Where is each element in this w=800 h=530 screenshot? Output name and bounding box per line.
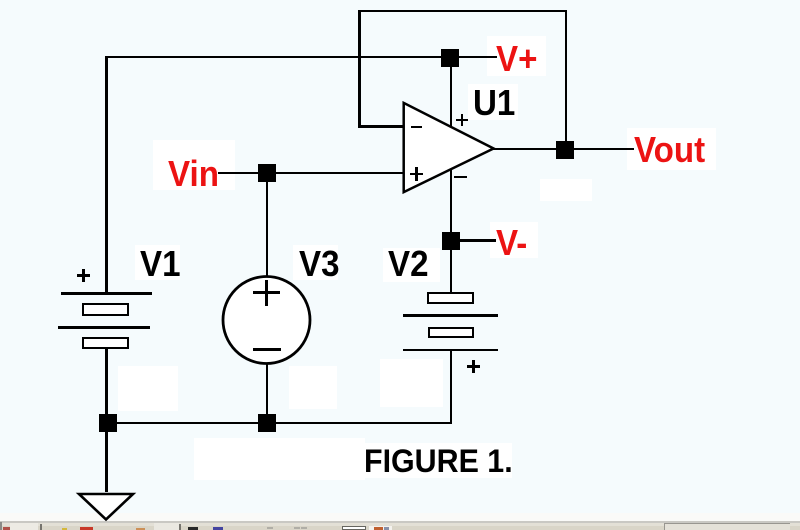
wire ground stem — [105, 424, 108, 492]
wire V+ rail horizontal — [105, 56, 497, 59]
label V3 — [299, 246, 340, 282]
junction node V+ — [441, 49, 459, 67]
net label Vout — [634, 132, 705, 168]
wire V3 bottom to ground bus — [266, 362, 269, 424]
wire ground bus horizontal — [105, 422, 452, 425]
wire feedback loop top horizontal — [358, 10, 567, 13]
op-amp U1 non-inverting input plus mark — [410, 173, 424, 176]
wire left vertical from V+ rail to V1 — [105, 56, 108, 294]
voltage source V3 — [221, 274, 313, 367]
voltage source V3 plus mark — [253, 291, 279, 294]
voltage source V3 minus mark — [253, 348, 281, 351]
op-amp U1 positive supply plus mark — [456, 119, 468, 122]
junction ground bus left — [99, 414, 117, 432]
wire into inverting input — [358, 125, 405, 128]
wire op-amp output to Vout — [492, 148, 634, 151]
wire op-amp negative supply pin down to V2 top — [450, 160, 453, 293]
net label Vin — [168, 156, 219, 192]
junction node output — [556, 141, 574, 159]
wire feedback loop right vertical to output node — [565, 10, 568, 150]
wire V- node horizontal to V- label — [451, 239, 496, 242]
battery V2 — [427, 292, 474, 304]
wire feedback loop left vertical — [358, 10, 361, 128]
label V1 — [140, 246, 181, 282]
wire Vin node down to V3 top — [266, 172, 269, 278]
net label V+ — [496, 41, 537, 77]
junction node V- — [442, 232, 460, 250]
label U1 — [473, 85, 515, 121]
ground — [75, 490, 139, 523]
wire Vin to non-inverting input — [218, 172, 405, 175]
battery V1 — [61, 292, 152, 295]
op-amp U1 — [400, 99, 498, 197]
op-amp U1 inverting input minus mark — [411, 126, 423, 129]
op-amp U1 negative supply minus mark — [454, 176, 467, 179]
toolbar strip at bottom — [0, 513, 800, 521]
net label V- — [496, 225, 527, 261]
caption FIGURE 1. — [364, 445, 513, 477]
label V2 — [388, 246, 429, 282]
wire V2 bottom to ground bus — [450, 349, 453, 424]
wire V+ node down to op-amp positive supply pin — [450, 56, 453, 129]
junction ground bus middle — [258, 414, 276, 432]
wire V1 bottom to ground bus — [105, 349, 108, 424]
junction node Vin — [258, 164, 276, 182]
